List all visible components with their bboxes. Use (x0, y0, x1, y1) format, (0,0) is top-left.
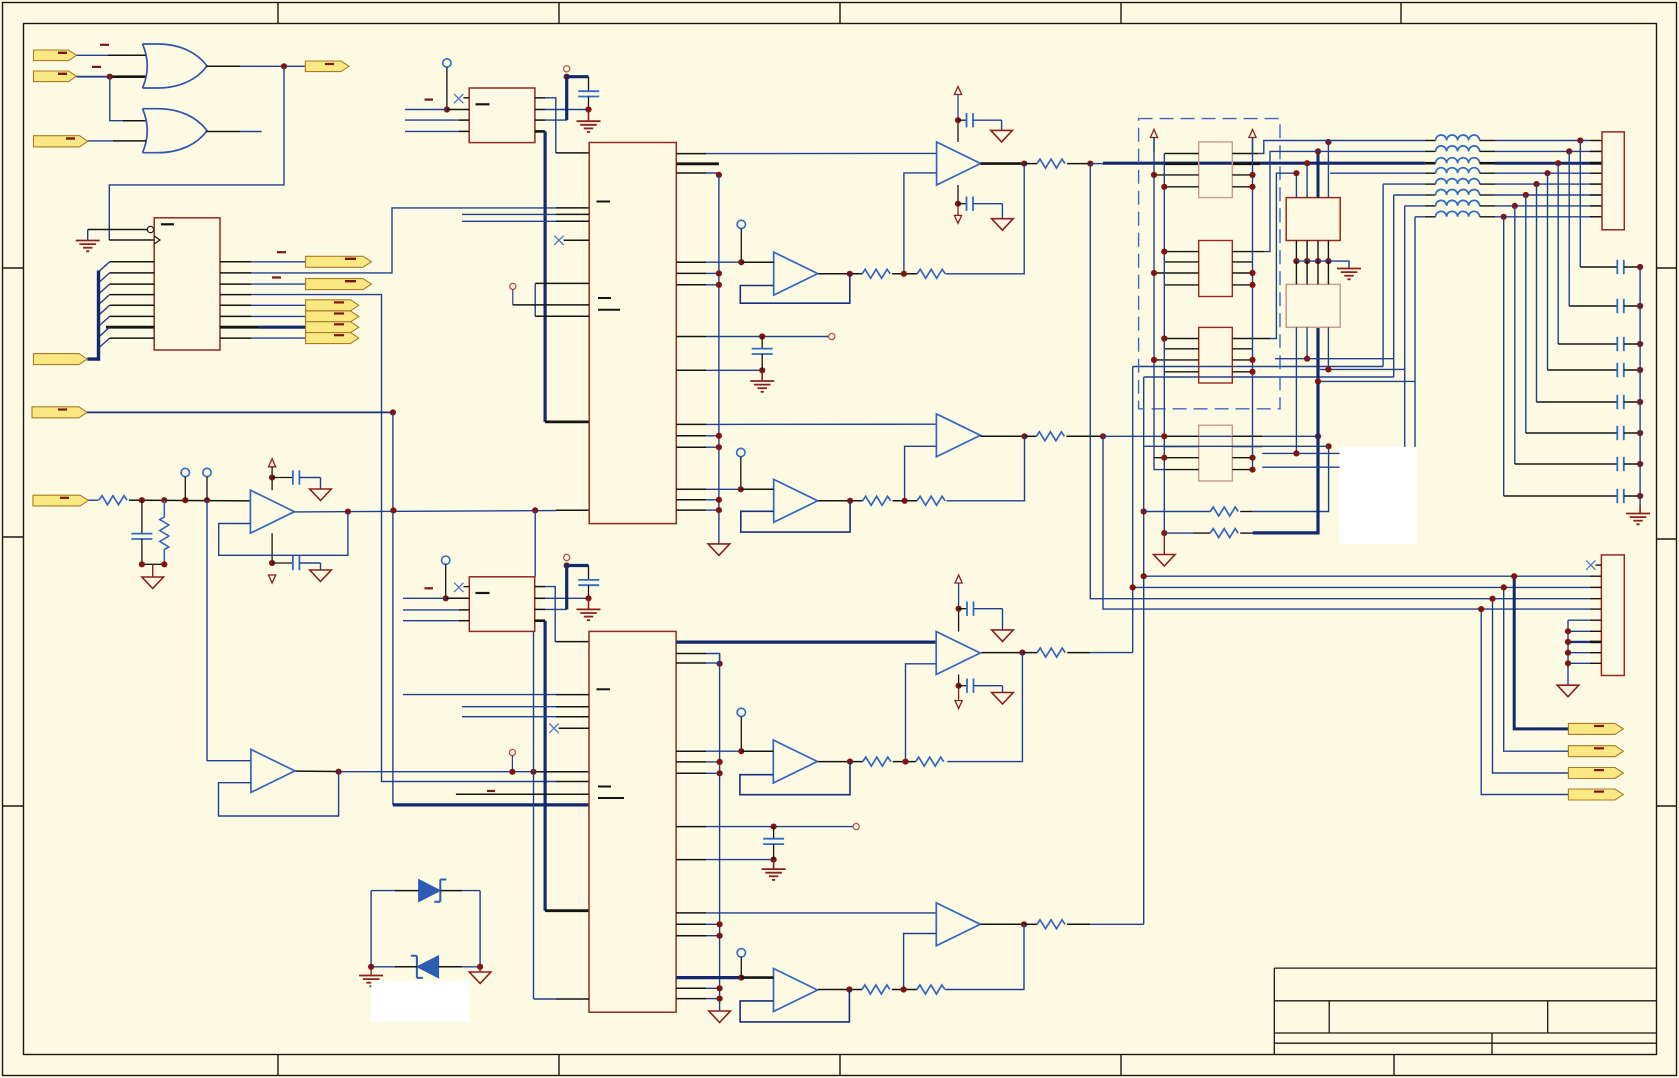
ch3 line (1133, 586, 1590, 588)
junctions (368, 964, 483, 970)
riser rows 5/6 (1383, 184, 1394, 377)
connector J1 (1602, 132, 1624, 230)
wire G1 output (206, 65, 305, 67)
gnd arrow below (142, 564, 164, 588)
port P7 (306, 300, 359, 311)
black pin seg row 207.9 (556, 207, 589, 209)
wire clock into U1FF (109, 239, 154, 241)
ch2 feedback vertical (946, 436, 1024, 501)
V2 vertical down to DAC2 bold row (392, 412, 394, 805)
coil row4 (1330, 168, 1602, 174)
big1 -in riser (904, 173, 937, 274)
big2 -in riser (905, 446, 937, 501)
J2 pins black stubs (1590, 576, 1602, 663)
resistor R-ch2 (1036, 432, 1064, 441)
cap risers (1504, 141, 1581, 497)
Acmp feedback loop (219, 772, 339, 816)
bold power elbow (565, 77, 589, 120)
down arrow under rail A (1154, 533, 1176, 566)
buffer1 output (818, 271, 862, 277)
U2 right pin1 to DAC1 pin1 (535, 98, 589, 153)
ground under cap (577, 110, 601, 133)
mid node ch2 (893, 498, 918, 504)
OR gate G2 (143, 109, 208, 153)
ch2 rail down (1103, 436, 1590, 609)
row7 bold wire (259, 326, 305, 329)
coil row8 (1415, 211, 1602, 217)
join cap/res bottom (139, 561, 168, 567)
diode right vertical (479, 891, 481, 967)
DAC1 rows 424-447 (676, 423, 936, 425)
port P9 (306, 322, 359, 333)
bold bus U3 pin4 down to DAC2 (543, 621, 546, 911)
junctions on row 510 (390, 507, 538, 513)
bold wire Riso2 to 1318 (1253, 531, 1320, 534)
buffer1 feedback loop (740, 274, 850, 303)
lower link lines (1262, 206, 1415, 467)
bold bus U2 pin4 down to DAC1 (543, 131, 546, 422)
title block (1274, 968, 1656, 1054)
port P8 (306, 311, 359, 322)
IC U2 small (469, 88, 535, 143)
shared node dots (1293, 258, 1331, 264)
rail R2 vertical (719, 654, 721, 1012)
net dash row1 (277, 251, 286, 253)
a4 pins (1154, 436, 1262, 469)
ground b-block (1337, 269, 1361, 280)
wire after R ch3 riser up (1067, 367, 1133, 653)
port P12 input (33, 495, 89, 506)
big4 output (980, 921, 1037, 927)
resistor R-ch1 (1037, 159, 1065, 168)
row7 bold pin (220, 326, 259, 329)
b1 top pins risers to coil rows (1296, 142, 1328, 198)
a1 pins (1154, 154, 1258, 187)
opto a3 (1199, 327, 1233, 383)
big1 decoupling bottom (954, 185, 1013, 230)
ground under cap 2 (577, 598, 601, 620)
coil row2 (1309, 146, 1602, 152)
rail R1 end arrow (708, 544, 730, 556)
opamp big2 (936, 414, 980, 457)
big4 -in riser (904, 934, 937, 990)
U2 left pin4 (405, 130, 469, 132)
bold stub into DAC2 row 910.7 (545, 909, 589, 912)
net dash near DAC2 (487, 790, 495, 792)
port P6 (306, 279, 372, 290)
DAC1 right rows 261-284 (676, 261, 741, 263)
a1 bold pins (1164, 163, 1198, 166)
J2 pin1 X (1586, 560, 1601, 569)
J2 gnd rail (1567, 620, 1569, 685)
coil row5 (1383, 179, 1602, 185)
U3 right pin4 black stub (535, 619, 545, 622)
a2 pins (1154, 252, 1264, 285)
port P14 (1568, 746, 1623, 757)
DAC1 right pin row1 to opamp1 (676, 152, 936, 154)
U3 label dash (476, 592, 490, 594)
bold power elbow 2 (565, 566, 589, 610)
D1 wires (371, 890, 480, 892)
buffer4 output (818, 986, 862, 992)
U3 left pin3 (403, 609, 469, 611)
bold vertical b-block (1316, 327, 1319, 534)
resistor Rin (89, 496, 142, 505)
port P16 (1568, 789, 1623, 800)
resistor R1-ch3 (863, 757, 891, 766)
DAC2 testpoint cluster rows 826/859 (676, 824, 859, 830)
net label dash (100, 44, 109, 46)
wire 1329 to 446 line (1144, 443, 1332, 449)
DAC2 right row3 (676, 662, 720, 664)
port P3 (34, 136, 88, 147)
port P1 (34, 50, 77, 61)
U2 label dash (476, 103, 490, 105)
resistor R1-ch4 (862, 985, 890, 994)
DAC2 rows 988/998 (676, 985, 723, 991)
DAC2 IC (589, 631, 676, 1012)
ch1 rail down (1090, 164, 1590, 599)
wire P2 junction down to G2 input (110, 77, 146, 121)
U3 X pin (454, 583, 469, 592)
resistor R2-ch3 (916, 757, 944, 766)
resistor R-ch3 (1037, 648, 1065, 657)
U1 left pin row7 bold (106, 326, 154, 329)
rail R2 end arrow (709, 1011, 731, 1023)
riser junction dots (1130, 573, 1518, 612)
U3 pin2 junction (443, 595, 449, 601)
white box W1 (1340, 447, 1417, 545)
opto a2 (1199, 241, 1233, 297)
rail left A x1154 (1154, 138, 1164, 470)
connector J2 (1601, 555, 1624, 676)
J2 lower pins from gnd rail (1568, 620, 1590, 663)
testpoint circles input (181, 468, 189, 500)
J2 gnd arrow (1557, 685, 1579, 697)
U3 right pin3 (535, 608, 567, 610)
wires rows5-8 to port stack (251, 305, 305, 338)
port P2 (34, 71, 77, 82)
Ain output wire (294, 511, 556, 512)
caps right rail (1639, 267, 1641, 505)
ch4 feedback vertical (945, 924, 1024, 989)
ground caps column (1626, 505, 1650, 524)
net label dash (92, 66, 101, 68)
mid verticals x1132/1142 (1133, 367, 1394, 378)
DAC1 row 283 elbow (535, 283, 589, 316)
opamp buffer4 (774, 969, 818, 1012)
buffer4 feedback loop (740, 990, 849, 1022)
buffer3 feedback loop (740, 762, 850, 795)
ch4 line (1144, 575, 1590, 577)
buffer3 power circle (737, 708, 745, 754)
port P15 (1568, 768, 1623, 779)
DAC2 label dashes (597, 689, 625, 798)
ground under C-mid1 (750, 370, 774, 392)
ground under C-mid2 (762, 860, 786, 880)
DAC1 X pin (554, 236, 589, 245)
a3 pins (1154, 339, 1270, 372)
dashed group box (1139, 119, 1280, 409)
wire feedback G1out down to U1FF clock (109, 66, 284, 240)
coil row6 (1394, 190, 1602, 196)
cap gnd junction (585, 106, 591, 112)
comparator Acmp (251, 749, 295, 792)
junction dots input node (139, 497, 210, 503)
Acmp output (295, 769, 533, 775)
U1 left pins (110, 262, 155, 338)
buffer1 +in stub (741, 261, 773, 263)
white box W2 (371, 981, 469, 1022)
junction G1 out (281, 63, 287, 69)
power arrow left (1150, 130, 1157, 152)
wire after R ch4 riser up (1067, 377, 1144, 924)
opamp Ain (250, 490, 294, 533)
resistor Riso2 (1164, 529, 1252, 538)
buffer2 power circle (737, 448, 745, 492)
input node wire (142, 499, 251, 502)
IC U3 small (469, 577, 534, 632)
port P-bus (34, 354, 88, 365)
rail R1 vertical (718, 175, 720, 544)
junction Ain out (345, 509, 351, 515)
driver b2 (1286, 284, 1340, 327)
DAC1 row 304.9 testpoint (510, 283, 590, 305)
DAC2 row 977 bold to buffer4 (676, 975, 744, 981)
DAC2 row 794 (456, 793, 589, 795)
wire Riso1 to 1329 (1253, 446, 1329, 511)
flip-flop U1 (154, 218, 220, 350)
net dash row2 (272, 276, 281, 278)
power port circle red (564, 66, 570, 80)
buffer2 feedback loop (741, 501, 850, 532)
U1 label dash (161, 223, 174, 225)
U3 right pin2 to cap node (535, 597, 589, 599)
buffer4 +in stub (741, 976, 773, 979)
U2 pin2 junction (444, 106, 450, 112)
U1 right pins (220, 262, 251, 338)
buffer1 power circle (737, 220, 745, 265)
J1 pin stubs (1590, 151, 1602, 216)
U3 left pin4 (403, 620, 469, 622)
coil row7 (1405, 200, 1602, 206)
DAC1 rows 489-510 (676, 488, 741, 490)
cap C-mid1 (752, 337, 773, 371)
gnd arrow right (469, 967, 491, 984)
buffer4 power circle (737, 949, 745, 978)
bus entries U1 (99, 262, 110, 348)
DAC1 testpoint cluster rows 336/370 (676, 333, 835, 339)
wire P11 long (87, 411, 393, 413)
b1 riser bold to row2 (1293, 139, 1331, 198)
cap C-U2 (578, 77, 599, 110)
CLR bubble (147, 226, 153, 232)
opto a4 (1199, 425, 1233, 481)
DAC2 right row1 bold to ch3 (676, 640, 936, 643)
wire P3 to G2 (88, 140, 146, 142)
U2 power circle (443, 59, 451, 110)
rail right A x1251.9 (1252, 138, 1254, 470)
junction 532 (530, 769, 536, 775)
bold stub into DAC1 row 421.9 (545, 420, 589, 423)
comparator rail down (207, 500, 251, 761)
DAC1 IC (589, 143, 676, 524)
U3 power circle (442, 556, 450, 598)
U3 left pin2 (403, 597, 469, 599)
cap C-U3 (578, 566, 599, 599)
cap Cin (131, 500, 152, 564)
link dots (1293, 356, 1331, 457)
bold wire into DAC2 (393, 803, 589, 806)
U2 right pin2 to cap node (535, 109, 589, 111)
big3 decoupling bottom (955, 675, 1013, 709)
resistor R2-ch2 (917, 496, 945, 505)
resistor Rg vertical (160, 500, 169, 564)
black pin seg row 781.5 (556, 781, 589, 783)
bold wire ch1 to coils (1103, 162, 1425, 165)
opamp big4 (936, 903, 980, 946)
black seg into DAC2 row 771.8 (534, 771, 590, 773)
DAC1 left pins rows 214/221 (462, 213, 589, 215)
U3 net dash (425, 587, 434, 589)
opto a1 (1199, 142, 1233, 198)
resistor R1-ch2 (863, 496, 891, 505)
U3 right pin1 to DAC2 pin1 (535, 587, 589, 642)
ground G-left (76, 230, 100, 252)
U2 right pin4 black stub (535, 130, 545, 133)
DAC2 left pins rows 694-717 (403, 694, 589, 696)
opamp big3 (936, 632, 980, 675)
wire row1 to P5 (251, 261, 305, 263)
diode left vertical (370, 891, 372, 967)
stub down from 535 to U3 (534, 510, 536, 576)
buffer3 +in stub (741, 750, 773, 752)
J2 pin8 bold wire (1568, 641, 1590, 643)
resistor R-ch4 (1037, 920, 1065, 929)
rail junction dots (1151, 172, 1256, 536)
junction V2 (390, 409, 396, 415)
shared node wire to ground (1296, 261, 1349, 268)
mid node (892, 271, 917, 277)
DAC1 right row2 bold stub (676, 162, 719, 165)
OR gate G1 (143, 44, 208, 88)
buffer3 output (818, 759, 863, 765)
wire G2 output dangling (206, 131, 262, 133)
buffer2 output (818, 498, 863, 504)
big3 -in riser (906, 664, 937, 762)
big3 output (981, 650, 1037, 656)
D2 wires (371, 966, 480, 968)
b2 top pins (1296, 261, 1328, 284)
diode D2 (411, 956, 439, 978)
coil row3 bold (1425, 158, 1602, 164)
mid node ch4 (892, 986, 917, 992)
DAC1 label dashes (597, 202, 621, 310)
wire P2 to OR1 (77, 76, 147, 78)
J2 pin8 bold (1590, 641, 1602, 644)
Ain decoupling bottom (269, 533, 332, 583)
J2 gnd rail dots (1565, 628, 1571, 666)
DAC1 row 315.6 (535, 315, 589, 317)
caps column (8 bypass caps) (1504, 260, 1644, 503)
driver b1 (1286, 198, 1340, 241)
DAC1 right row3 to rail (676, 172, 722, 178)
opamp big1 (937, 142, 981, 185)
ch1 feedback vertical (946, 164, 1025, 274)
riser dots at connector side (1501, 137, 1584, 220)
U1 clock arrow (154, 236, 160, 244)
Ain feedback loop (219, 512, 348, 556)
DAC2 row 999 (534, 998, 590, 1000)
resistor R1-ch1 (862, 269, 890, 278)
coil row1 (1298, 135, 1602, 141)
ch3 feedback vertical (947, 653, 1022, 762)
rail left B x1164 (1163, 154, 1165, 534)
U2 left pin2 (405, 109, 469, 111)
wire row3 to P6 (251, 283, 305, 285)
power port circle red 2 (564, 554, 570, 568)
buffer2 +in stub (741, 488, 774, 490)
diode D1 (419, 880, 447, 902)
wire after R (1067, 161, 1103, 167)
wire row4 long via V3 to DAC2 (251, 295, 556, 782)
U2 net dash (425, 98, 434, 100)
port P11 (32, 407, 87, 418)
bus vertical (87, 271, 98, 360)
port P5 (306, 256, 372, 267)
big2 output (980, 433, 1036, 439)
cap C-mid2 (763, 827, 784, 860)
resistor R2-ch1 (917, 269, 945, 278)
resistor Riso1 (1141, 507, 1253, 516)
b1 bottom pins to shared node (1296, 241, 1328, 262)
DAC2 X pin (549, 724, 589, 733)
opamp buffer2 (774, 479, 818, 522)
mid node ch3 (893, 759, 916, 765)
wire P1 to OR1 (77, 54, 147, 56)
black seg into DAC1 (556, 509, 589, 511)
port P13 (1568, 723, 1623, 734)
testpoint circle near DAC2 (509, 749, 515, 775)
opamp buffer1 (774, 252, 818, 295)
big1 output (981, 161, 1037, 167)
wire after R ch2 (1066, 433, 1321, 439)
big3 decoupling top (955, 575, 1013, 641)
junction P2 (107, 74, 113, 80)
b2 bottom pins down (1296, 327, 1328, 453)
U2 right pin3 to power rail (535, 119, 567, 121)
power arrow right (1249, 130, 1256, 154)
resistor R2-ch4 (917, 985, 945, 994)
wire gnd to CLR bubble (88, 229, 148, 231)
port P10 (306, 333, 359, 344)
DAC2 rows 751-773 (676, 750, 741, 752)
riser P13 bold (1514, 576, 1568, 729)
ground earth left (359, 967, 383, 987)
cap gnd junction 2 (585, 595, 591, 601)
wire row2 long to V1 (251, 208, 556, 273)
DAC2 right row2 elbow (676, 654, 723, 667)
opamp buffer3 (773, 740, 817, 783)
U2 X pin (454, 94, 469, 103)
risers to bottom ports (1481, 587, 1568, 794)
DAC2 rows 912-936 (676, 912, 936, 914)
V4 stub up from 532 (533, 631, 535, 999)
Ain decoupling top: arrow, junction, cap, gnd tri (269, 459, 332, 501)
port P4 output (305, 61, 349, 72)
U2 left pin3 (405, 119, 469, 121)
big1 decoupling top (954, 87, 1012, 143)
